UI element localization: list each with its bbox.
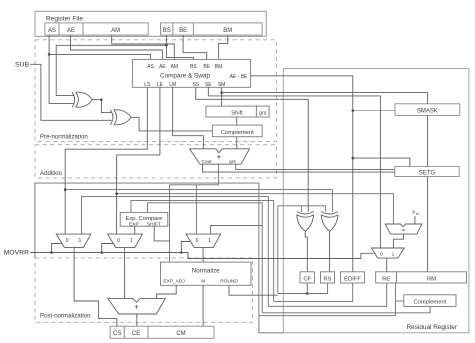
svg-text:LS: LS <box>144 82 151 88</box>
wire Complement output to adder input B <box>236 137 238 149</box>
node AE-BE to SMASK <box>352 109 355 112</box>
register cell RM <box>397 272 467 283</box>
svg-text:0: 0 <box>380 251 383 257</box>
wire SM to Shift and SMASK column <box>221 87 223 106</box>
wire SMASK output to RM <box>427 115 429 271</box>
dashed box Pre-normalization region <box>35 40 277 142</box>
svg-text:Residual Register: Residual Register <box>407 324 458 331</box>
block grs cell <box>256 106 269 117</box>
node CF maze junction <box>306 292 309 295</box>
wire AS to Compare&Swap and sign branch <box>49 35 74 103</box>
Residual Register outer box <box>283 69 469 333</box>
svg-text:1: 1 <box>79 238 82 244</box>
svg-text:AE: AE <box>67 28 75 34</box>
svg-text:Normalize: Normalize <box>192 267 220 274</box>
svg-text:SE: SE <box>205 82 212 88</box>
block Shift <box>206 106 257 117</box>
wire LM down jog to adder input A <box>173 87 204 149</box>
svg-text:BS: BS <box>163 28 171 34</box>
xor gate XOR4 residual sign <box>321 212 338 232</box>
block Normalize <box>161 262 252 285</box>
register cell BE <box>173 23 194 35</box>
wire adder Cout output to SETG <box>203 164 395 172</box>
svg-text:LM: LM <box>169 82 176 88</box>
wire W5 residual sign feedback to mux1 input 1 <box>82 197 269 307</box>
register cell BS <box>161 23 173 35</box>
wire XOR4 output to RS <box>329 231 331 272</box>
wire mux2 output to exponent adder <box>124 247 126 298</box>
svg-text:Complement: Complement <box>221 130 254 136</box>
wire Shift output to Complement <box>236 117 238 125</box>
svg-text:1: 1 <box>208 238 211 244</box>
svg-text:BM: BM <box>215 64 223 70</box>
adder ALU (exponent adjust) <box>108 299 165 314</box>
register cell CM <box>148 326 214 338</box>
wire SHIFT output to Normalize <box>154 226 169 241</box>
wire mux1 select tap <box>52 244 62 253</box>
svg-text:AS: AS <box>48 28 56 34</box>
block Compare & Swap <box>132 59 250 87</box>
node BS branch <box>165 44 168 47</box>
wire W4 exponent band to shifter input <box>117 194 394 224</box>
register cell CE <box>124 326 148 338</box>
svg-text:MOVRR: MOVRR <box>4 249 29 256</box>
register cell CF <box>300 272 315 283</box>
svg-text:EXP: EXP <box>129 222 139 228</box>
wire AE-BE result to right column <box>251 76 353 272</box>
svg-text:BM: BM <box>223 28 232 34</box>
svg-text:M: M <box>201 279 205 285</box>
register cell BM <box>193 23 262 35</box>
svg-text:EDIFF: EDIFF <box>344 276 361 282</box>
register cell AS <box>45 23 59 35</box>
wire mux2 select tap <box>102 244 114 253</box>
register cell AM <box>83 23 148 35</box>
svg-text:SUB: SUB <box>15 62 29 69</box>
mux M1 sign <box>56 234 91 247</box>
node XOR1 output <box>100 98 103 101</box>
svg-text:AE: AE <box>159 64 166 70</box>
svg-text:ROUND: ROUND <box>220 279 238 285</box>
node W3 sign band <box>64 188 67 191</box>
wire SS to residual XOR right gate input <box>196 87 308 212</box>
wire SUB input <box>30 64 112 120</box>
wire mux3 select tap <box>181 242 190 253</box>
shifter residual <box>385 224 422 234</box>
svg-text:EXP_ADJ: EXP_ADJ <box>163 279 185 285</box>
svg-text:CM: CM <box>176 331 185 337</box>
node AE-BE to SETG <box>352 157 355 160</box>
svg-text:CF: CF <box>303 276 311 282</box>
wire LS down jog to W5 band <box>65 87 147 234</box>
svg-text:=: = <box>402 228 405 234</box>
wire W3 sign band to XOR4 right input <box>65 190 332 212</box>
svg-text:AM: AM <box>171 64 179 70</box>
svg-text:CS: CS <box>113 331 121 337</box>
svg-text:SETG: SETG <box>419 171 436 177</box>
svg-text:0: 0 <box>66 238 69 244</box>
wire maze H2 EDIFF feedback <box>274 283 353 301</box>
svg-text:AE - BE: AE - BE <box>230 74 248 80</box>
wire residual mux output to RE <box>386 258 388 272</box>
wire XOR1 output to XOR2 upper input <box>92 99 101 101</box>
wire BE to Compare&Swap <box>183 35 207 59</box>
svg-text:0: 0 <box>196 238 199 244</box>
svg-text:0: 0 <box>117 238 120 244</box>
svg-text:SMASK: SMASK <box>417 109 438 115</box>
wire maze H4 residual complement feedback <box>262 307 430 313</box>
wire XOR2 output to Complement control <box>131 117 212 131</box>
svg-text:Post-normalization: Post-normalization <box>40 313 90 320</box>
mux M3 mantissa <box>186 234 221 247</box>
wire W1 residual RM wrap-around bus <box>35 183 259 258</box>
wire mux3 output to Normalize <box>202 247 204 262</box>
xor gate XOR2 sign with SUB <box>110 110 131 125</box>
wire shifter output to residual mux input 1 <box>393 234 403 248</box>
xor gate XOR3 residual sign <box>297 212 314 232</box>
svg-text:grs: grs <box>259 110 267 116</box>
node SM branch <box>220 91 223 94</box>
dashed box Addition region <box>35 145 277 178</box>
wire n m to shifter <box>414 216 416 224</box>
register cell RE <box>376 272 397 283</box>
node AS branch <box>48 53 51 56</box>
wire EXP_ADJ to exponent adder <box>157 285 177 298</box>
wire W6 residual exponent feedback to Exp Compare <box>131 200 274 301</box>
svg-text:1: 1 <box>392 251 395 257</box>
block SETG <box>395 166 459 176</box>
wire adder sum jog to mux3 and Normalize <box>170 164 219 262</box>
svg-text:RE: RE <box>382 276 390 282</box>
wire BM to Compare&Swap <box>219 35 228 59</box>
wire MOVRR control <box>30 253 375 259</box>
wire BS to Compare&Swap and sign branch <box>166 35 193 59</box>
svg-text:BE: BE <box>203 64 210 70</box>
wire RM output to residual Complement <box>395 300 403 302</box>
wire maze H1 CF RS feedback <box>278 283 328 294</box>
wire SE to residual mux 0 input <box>208 87 380 248</box>
svg-text:+: + <box>134 303 139 312</box>
svg-text:1: 1 <box>130 238 133 244</box>
dashed box Post-normalization region <box>35 258 253 322</box>
block Complement (residual) <box>404 295 456 307</box>
wire mux1 output to CS <box>74 247 117 326</box>
svg-text:Compare & Swap: Compare & Swap <box>160 72 211 79</box>
node MOVRR tap3 <box>180 251 183 254</box>
svg-text:RM: RM <box>427 276 436 282</box>
svg-text:AS: AS <box>147 64 154 70</box>
svg-text:CE: CE <box>132 331 140 337</box>
adder ALU (addition stage) <box>190 149 250 164</box>
wire mux3 input 1 loop <box>211 226 263 235</box>
svg-text:Complement: Complement <box>413 299 446 305</box>
register cell AE <box>59 23 83 35</box>
Register File outer box <box>35 11 266 36</box>
wire maze H5 RM wrap feedback <box>259 183 283 333</box>
block Exp. Compare <box>120 212 168 226</box>
wire EXP output to mux2 input 1 <box>134 226 136 234</box>
svg-text:+: + <box>217 152 222 161</box>
svg-text:LE: LE <box>157 82 164 88</box>
svg-text:Register File: Register File <box>46 16 83 23</box>
wire ROUND to residual column <box>229 285 278 295</box>
mux M2 exponent <box>108 234 143 247</box>
svg-text:Shift: Shift <box>231 110 243 116</box>
svg-text:SS: SS <box>192 82 199 88</box>
node MOVRR tap2 <box>101 251 104 254</box>
svg-text:Pre-normalization: Pre-normalization <box>40 133 88 140</box>
svg-text:Addition: Addition <box>40 170 62 177</box>
wire W8 carry feedback to residual XOR left inputs <box>278 206 326 212</box>
svg-text:Exp. Compare: Exp. Compare <box>125 216 162 222</box>
svg-text:grs: grs <box>229 159 236 165</box>
wire adder grs output to SETG <box>236 164 395 169</box>
register cell EDIFF <box>341 272 365 283</box>
node MOVRR tap1 <box>50 251 53 254</box>
wire AE to Compare&Swap <box>71 35 163 59</box>
wire maze H3 RE feedback <box>268 283 386 306</box>
block Complement (pre-normalization) <box>212 125 262 137</box>
wire AE-BE branch to SETG <box>353 158 410 166</box>
wire W7 residual mantissa feedback to Exp Compare and mux3 <box>148 203 263 313</box>
svg-text:SM: SM <box>218 82 226 88</box>
block SMASK <box>395 104 460 116</box>
xor gate XOR1 sign compare <box>72 92 92 107</box>
wire XOR3 output to CF <box>305 231 307 272</box>
wire M to CM <box>202 285 204 326</box>
svg-text:AM: AM <box>111 28 120 34</box>
register cell RS <box>321 272 335 283</box>
svg-text:BS: BS <box>190 64 197 70</box>
svg-text:Cout: Cout <box>202 159 213 165</box>
wire LE down jog to mux2 input 0 <box>117 87 160 234</box>
svg-text:BE: BE <box>179 28 187 34</box>
mux M4 residual <box>371 248 404 258</box>
wire exponent adder output to CE <box>136 314 138 326</box>
svg-text:RS: RS <box>323 276 331 282</box>
wire AM to Compare&Swap <box>112 35 175 59</box>
wire AE-BE branch to SMASK <box>353 110 395 112</box>
register cell CS <box>110 326 124 338</box>
node W4 exponent band <box>115 192 118 195</box>
